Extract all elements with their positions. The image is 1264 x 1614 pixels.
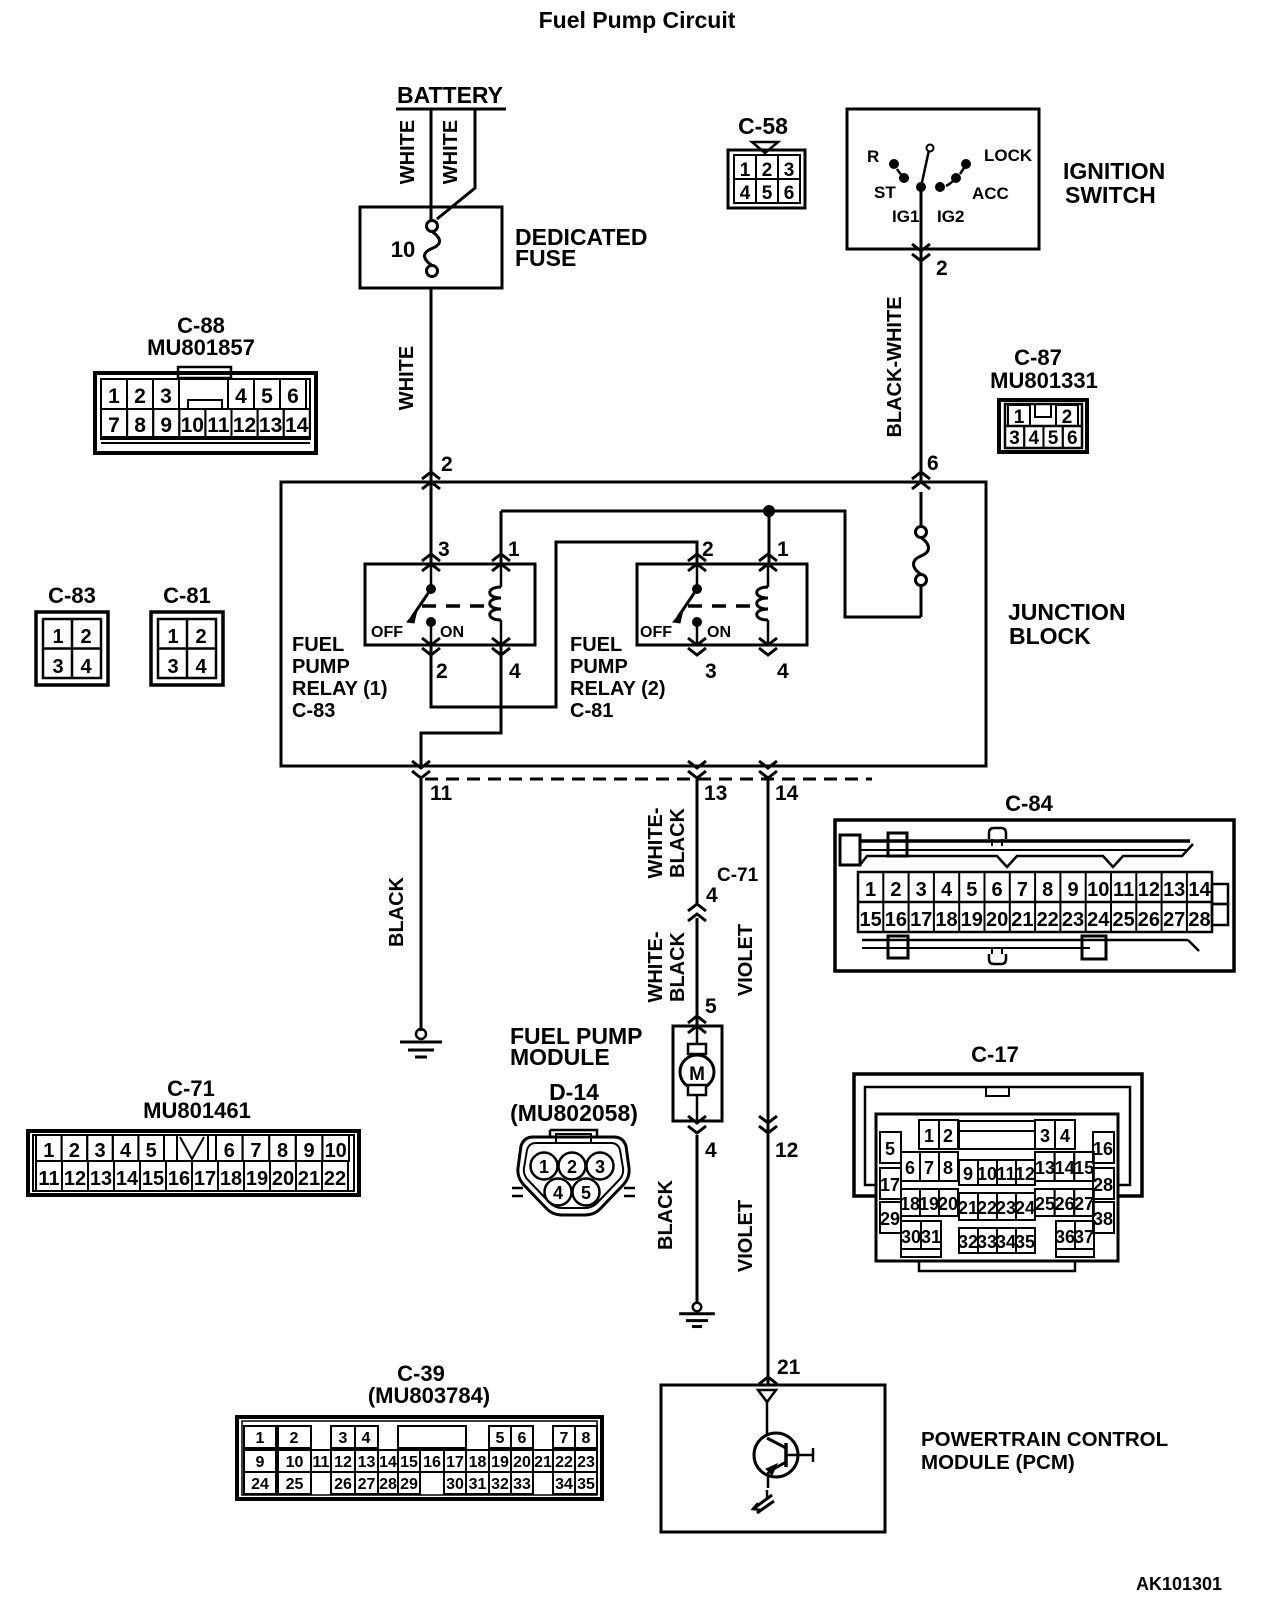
svg-text:LOCK: LOCK: [984, 146, 1033, 165]
svg-text:C-81: C-81: [570, 700, 613, 722]
svg-text:WHITE-: WHITE-: [645, 931, 667, 1002]
chevrons into fuel pump module: [688, 1016, 706, 1033]
svg-text:6: 6: [1067, 428, 1078, 449]
junction node at relay 2 coil branch: [764, 506, 775, 517]
svg-text:3: 3: [784, 160, 795, 181]
svg-text:1: 1: [539, 1157, 549, 1177]
svg-text:PUMP: PUMP: [570, 656, 628, 678]
svg-text:OFF: OFF: [640, 624, 672, 641]
svg-text:WHITE-: WHITE-: [645, 807, 667, 878]
svg-text:IG1: IG1: [892, 207, 919, 226]
svg-text:35: 35: [1015, 1232, 1035, 1252]
svg-text:MU801461: MU801461: [143, 1098, 251, 1123]
svg-text:13: 13: [1035, 1158, 1055, 1178]
svg-text:4: 4: [777, 660, 789, 683]
svg-text:14: 14: [1188, 879, 1211, 901]
connector C-71 inline crossing, pin 4: [688, 904, 706, 921]
svg-text:15: 15: [1074, 1158, 1094, 1178]
svg-text:22: 22: [324, 1168, 346, 1190]
svg-text:19: 19: [491, 1454, 509, 1471]
chevrons on violet wire: [759, 1116, 777, 1133]
svg-text:22: 22: [1037, 909, 1059, 931]
relay 2 switch: [673, 564, 702, 645]
svg-text:4: 4: [705, 1139, 717, 1162]
connector C-84: [835, 791, 1234, 971]
svg-text:11: 11: [207, 414, 230, 437]
svg-text:6: 6: [287, 385, 299, 408]
svg-text:14: 14: [379, 1454, 397, 1471]
svg-text:9: 9: [160, 414, 172, 437]
svg-text:5: 5: [581, 1183, 591, 1203]
svg-text:C-58: C-58: [738, 113, 788, 139]
svg-text:20: 20: [938, 1194, 958, 1214]
svg-text:5: 5: [966, 879, 977, 901]
svg-text:33: 33: [977, 1232, 997, 1252]
svg-text:10: 10: [286, 1454, 304, 1471]
chevrons junction block pin 11: [412, 761, 430, 778]
wire: battery to fuse (left lead): [430, 109, 433, 221]
svg-text:6: 6: [905, 1158, 915, 1178]
svg-text:VIOLET: VIOLET: [735, 924, 757, 996]
svg-text:4: 4: [509, 660, 521, 683]
label FUEL PUMP RELAY (1) C-83: [292, 634, 388, 722]
svg-text:5: 5: [146, 1140, 157, 1162]
svg-text:2: 2: [702, 538, 714, 561]
svg-text:4: 4: [362, 1430, 371, 1447]
svg-text:ON: ON: [440, 624, 464, 641]
svg-text:27: 27: [1074, 1194, 1094, 1214]
chevrons relay 1 pin 1: [492, 554, 510, 571]
svg-text:21: 21: [534, 1454, 552, 1471]
svg-text:BLACK-WHITE: BLACK-WHITE: [884, 296, 906, 437]
svg-text:R: R: [867, 147, 879, 166]
svg-text:28: 28: [1093, 1175, 1113, 1195]
svg-text:22: 22: [555, 1454, 573, 1471]
svg-text:3: 3: [595, 1157, 605, 1177]
svg-text:7: 7: [250, 1140, 261, 1162]
svg-text:38: 38: [1093, 1209, 1113, 1229]
svg-text:11: 11: [313, 1454, 330, 1471]
svg-text:C-17: C-17: [971, 1042, 1019, 1067]
relay 1 coil: [490, 564, 501, 645]
svg-text:16: 16: [168, 1168, 190, 1190]
svg-text:6: 6: [224, 1140, 235, 1162]
svg-text:24: 24: [1015, 1198, 1035, 1218]
svg-text:BLOCK: BLOCK: [1009, 623, 1091, 649]
svg-text:IG2: IG2: [937, 207, 964, 226]
svg-text:11: 11: [430, 782, 453, 805]
svg-text:2: 2: [1062, 407, 1073, 428]
svg-text:29: 29: [400, 1476, 418, 1493]
powertrain control module box: [661, 1385, 885, 1532]
svg-text:10: 10: [977, 1164, 997, 1184]
svg-text:ST: ST: [874, 183, 896, 202]
svg-text:23: 23: [577, 1454, 595, 1471]
chevrons out of fuel pump module: [688, 1116, 706, 1133]
connector C-39 (MU803784): [237, 1361, 602, 1499]
svg-text:34: 34: [996, 1232, 1016, 1252]
svg-text:18: 18: [469, 1454, 487, 1471]
PCM input triangle (pin 21): [758, 1390, 776, 1402]
relay 2 coil: [757, 564, 768, 645]
svg-text:17: 17: [446, 1454, 464, 1471]
svg-text:C-83: C-83: [48, 583, 96, 608]
svg-text:3: 3: [705, 660, 717, 683]
svg-text:20: 20: [272, 1168, 294, 1190]
svg-text:27: 27: [358, 1476, 376, 1493]
svg-text:28: 28: [1188, 909, 1210, 931]
chevrons relay 2 pin 3: [688, 638, 706, 655]
junction block bottom dashed edge: [425, 778, 872, 781]
svg-text:25: 25: [1035, 1194, 1055, 1214]
svg-text:OFF: OFF: [371, 624, 403, 641]
svg-text:28: 28: [379, 1476, 397, 1493]
svg-text:19: 19: [246, 1168, 268, 1190]
svg-text:4: 4: [1060, 1126, 1070, 1146]
ignition switch rotary contacts: [890, 145, 971, 192]
connector C-71 MU801461: [28, 1076, 359, 1195]
label WHITE-BLACK (lower): [645, 931, 689, 1002]
svg-text:3: 3: [1040, 1126, 1050, 1146]
svg-text:30: 30: [446, 1476, 464, 1493]
svg-text:5: 5: [1048, 428, 1059, 449]
label JUNCTION BLOCK: [1008, 599, 1126, 649]
svg-text:11: 11: [996, 1164, 1015, 1184]
svg-text:36: 36: [1055, 1227, 1075, 1247]
svg-text:AK101301: AK101301: [1136, 1574, 1222, 1594]
svg-text:22: 22: [977, 1198, 997, 1218]
fuel pump relay (1) box C-83: [365, 564, 535, 645]
chevrons relay 2 pin 2: [688, 554, 706, 571]
svg-text:3: 3: [94, 1140, 105, 1162]
chevrons relay 2 pin 4: [759, 638, 777, 655]
svg-text:BLACK: BLACK: [667, 807, 689, 878]
svg-text:ON: ON: [707, 624, 731, 641]
chevrons relay 2 pin 1: [759, 554, 777, 571]
svg-text:34: 34: [555, 1476, 573, 1493]
svg-text:C-71: C-71: [717, 865, 759, 886]
svg-text:JUNCTION: JUNCTION: [1008, 599, 1126, 625]
ignition switch box: [847, 109, 1039, 249]
wire: fuel pump module pin 4 to ground (BLACK): [696, 1135, 699, 1304]
svg-text:13: 13: [358, 1454, 376, 1471]
svg-text:(MU802058): (MU802058): [510, 1100, 638, 1126]
svg-text:18: 18: [220, 1168, 242, 1190]
chevrons junction block pin 13: [688, 761, 706, 778]
svg-text:24: 24: [1087, 909, 1110, 931]
svg-text:BATTERY: BATTERY: [397, 82, 503, 108]
svg-text:9: 9: [304, 1140, 315, 1162]
svg-text:17: 17: [194, 1168, 216, 1190]
svg-text:10: 10: [325, 1140, 347, 1162]
svg-text:14: 14: [116, 1168, 139, 1190]
svg-text:2: 2: [290, 1430, 299, 1447]
connector D-14 face view: [512, 1130, 635, 1215]
svg-text:35: 35: [577, 1476, 595, 1493]
svg-text:17: 17: [880, 1175, 900, 1195]
svg-text:WHITE: WHITE: [397, 120, 419, 184]
relay 1 switch: [407, 564, 436, 645]
svg-text:5: 5: [762, 183, 773, 204]
svg-text:BLACK: BLACK: [667, 931, 689, 1002]
fuel pump module box D-14: [673, 1026, 722, 1121]
chevrons relay 1 pin 2: [422, 638, 440, 655]
svg-text:31: 31: [921, 1227, 941, 1247]
svg-text:21: 21: [1011, 909, 1033, 931]
svg-text:FUEL: FUEL: [292, 634, 344, 656]
svg-text:13: 13: [704, 782, 727, 805]
svg-text:M: M: [689, 1064, 705, 1085]
wire: relay 1 pin 2 to relay 2 pin 2: [431, 542, 697, 707]
svg-text:26: 26: [334, 1476, 352, 1493]
wire: battery to fuse (right lead): [437, 109, 475, 219]
chevrons relay 1 pin 3: [422, 554, 440, 571]
connector C-87 MU801331: [990, 345, 1098, 452]
svg-text:23: 23: [996, 1198, 1016, 1218]
svg-text:3: 3: [916, 879, 927, 901]
chevrons into junction block top (pin 2): [422, 472, 440, 489]
svg-text:20: 20: [513, 1454, 531, 1471]
connector C-88 MU801857: [95, 313, 316, 453]
svg-text:6: 6: [518, 1430, 527, 1447]
svg-text:3: 3: [167, 656, 178, 678]
svg-text:1: 1: [1014, 407, 1025, 428]
svg-text:24: 24: [251, 1476, 269, 1493]
ground G2: [679, 1303, 715, 1327]
svg-text:POWERTRAIN CONTROL: POWERTRAIN CONTROL: [921, 1428, 1168, 1451]
junction block outline: [281, 482, 986, 766]
svg-text:WHITE: WHITE: [440, 120, 462, 184]
svg-text:9: 9: [256, 1454, 265, 1471]
svg-text:FUEL: FUEL: [570, 634, 622, 656]
svg-text:1: 1: [740, 160, 751, 181]
svg-text:17: 17: [910, 909, 932, 931]
svg-text:8: 8: [134, 414, 146, 437]
svg-text:6: 6: [992, 879, 1003, 901]
fusible link inside junction block: [914, 492, 929, 617]
wire: relay 1 pin 4 to junction block pin 11: [421, 645, 501, 766]
svg-text:12: 12: [1138, 879, 1160, 901]
svg-text:2: 2: [436, 660, 448, 683]
svg-text:2: 2: [762, 160, 773, 181]
fuel pump motor M: [680, 1026, 714, 1121]
connector C-58: [728, 113, 805, 208]
svg-text:4: 4: [706, 884, 718, 907]
svg-text:16: 16: [1093, 1139, 1113, 1159]
svg-text:14: 14: [775, 782, 799, 805]
svg-text:1: 1: [865, 879, 876, 901]
svg-text:3: 3: [160, 385, 172, 408]
connector C-17: [854, 1042, 1142, 1271]
svg-text:15: 15: [400, 1454, 418, 1471]
wire: coil bus to relay 1 pin 1: [500, 511, 503, 564]
svg-text:33: 33: [513, 1476, 531, 1493]
svg-text:15: 15: [142, 1168, 164, 1190]
svg-text:ACC: ACC: [972, 184, 1009, 203]
connector C-81: [151, 583, 223, 685]
svg-text:7: 7: [108, 414, 120, 437]
svg-text:4: 4: [941, 879, 953, 901]
connector C-83: [36, 583, 108, 685]
svg-text:7: 7: [1017, 879, 1028, 901]
svg-text:RELAY (1): RELAY (1): [292, 678, 388, 700]
svg-text:13: 13: [1163, 879, 1185, 901]
svg-text:14: 14: [1055, 1158, 1075, 1178]
svg-text:10: 10: [181, 414, 204, 437]
svg-text:26: 26: [1055, 1194, 1075, 1214]
svg-text:2: 2: [195, 626, 206, 648]
svg-text:2: 2: [441, 453, 453, 476]
wire: junction block pin 13 to connector C-71 (WHITE-BLACK): [696, 779, 699, 905]
label WHITE-BLACK (upper): [645, 807, 689, 878]
relay 2 dashed link: [688, 604, 760, 608]
svg-text:MODULE (PCM): MODULE (PCM): [921, 1451, 1075, 1474]
svg-text:WHITE: WHITE: [396, 346, 418, 410]
wire: junction block pin 14 to PCM pin 21 (VIOLET): [767, 779, 770, 1385]
svg-text:BLACK: BLACK: [655, 1179, 677, 1250]
svg-text:1: 1: [256, 1430, 265, 1447]
svg-text:VIOLET: VIOLET: [735, 1200, 757, 1272]
label IGNITION SWITCH: [1063, 158, 1165, 208]
svg-text:(MU803784): (MU803784): [368, 1383, 490, 1408]
label FUEL PUMP RELAY (2) C-81: [570, 634, 666, 722]
svg-text:C-81: C-81: [163, 583, 211, 608]
svg-text:2: 2: [890, 879, 901, 901]
svg-text:19: 19: [919, 1194, 939, 1214]
svg-text:FUSE: FUSE: [515, 245, 576, 271]
svg-text:11: 11: [1113, 879, 1134, 901]
svg-text:2: 2: [943, 1126, 953, 1146]
svg-text:5: 5: [705, 995, 717, 1018]
svg-text:3: 3: [339, 1430, 348, 1447]
svg-text:C-84: C-84: [1005, 791, 1053, 816]
wire: bus to relay 2 coil pin 1: [768, 511, 771, 564]
svg-text:8: 8: [1042, 879, 1053, 901]
svg-text:MU801331: MU801331: [990, 368, 1098, 393]
svg-text:18: 18: [900, 1194, 920, 1214]
svg-text:37: 37: [1074, 1227, 1094, 1247]
svg-text:1: 1: [108, 385, 120, 408]
svg-text:20: 20: [986, 909, 1008, 931]
svg-text:5: 5: [885, 1139, 895, 1159]
svg-text:4: 4: [120, 1140, 132, 1162]
svg-text:10: 10: [1087, 879, 1109, 901]
svg-text:Fuel Pump Circuit: Fuel Pump Circuit: [539, 7, 736, 33]
svg-text:21: 21: [777, 1356, 801, 1379]
svg-text:11: 11: [38, 1168, 59, 1190]
label DEDICATED FUSE: [515, 224, 647, 271]
svg-text:9: 9: [1067, 879, 1078, 901]
battery B+ terminal: [396, 82, 506, 109]
svg-text:4: 4: [235, 385, 247, 408]
svg-text:3: 3: [438, 538, 450, 561]
svg-text:12: 12: [233, 414, 256, 437]
wire: fuse to junction block pin 2: [430, 288, 433, 482]
fuse element (dedicated fuse): [425, 221, 440, 277]
wire: junction block pin 11 to ground (BLACK): [420, 779, 423, 1031]
svg-text:16: 16: [885, 909, 907, 931]
ground G1: [400, 1029, 442, 1057]
svg-text:1: 1: [43, 1140, 54, 1162]
svg-text:29: 29: [880, 1209, 900, 1229]
svg-text:8: 8: [277, 1140, 288, 1162]
svg-text:5: 5: [496, 1430, 505, 1447]
wire: ignition switch pin 2 to junction block pin 6: [920, 187, 923, 482]
svg-text:7: 7: [924, 1158, 934, 1178]
svg-text:31: 31: [469, 1476, 487, 1493]
svg-text:12: 12: [1015, 1164, 1035, 1184]
PCM internal ground continuation arrow: [753, 1490, 774, 1513]
svg-text:10: 10: [391, 237, 415, 262]
svg-text:16: 16: [423, 1454, 441, 1471]
svg-text:1: 1: [52, 626, 63, 648]
chevron into PCM: [759, 1377, 777, 1384]
svg-text:IGNITION: IGNITION: [1063, 158, 1165, 184]
svg-text:C-83: C-83: [292, 700, 335, 722]
chevrons relay 1 pin 4: [492, 638, 510, 655]
svg-text:9: 9: [963, 1164, 973, 1184]
svg-text:12: 12: [334, 1454, 352, 1471]
svg-text:BLACK: BLACK: [386, 876, 408, 947]
svg-text:8: 8: [582, 1430, 591, 1447]
svg-text:4: 4: [740, 183, 751, 204]
svg-text:RELAY (2): RELAY (2): [570, 678, 666, 700]
svg-text:4: 4: [1029, 428, 1040, 449]
svg-text:4: 4: [553, 1183, 563, 1203]
chevrons into junction block top (pin 6): [912, 472, 930, 489]
svg-text:SWITCH: SWITCH: [1065, 182, 1156, 208]
svg-text:21: 21: [958, 1198, 978, 1218]
svg-text:12: 12: [64, 1168, 86, 1190]
svg-text:15: 15: [859, 909, 881, 931]
svg-text:26: 26: [1138, 909, 1160, 931]
svg-text:30: 30: [901, 1227, 921, 1247]
svg-text:32: 32: [958, 1232, 978, 1252]
svg-text:32: 32: [491, 1476, 509, 1493]
svg-text:23: 23: [1062, 909, 1084, 931]
svg-text:6: 6: [784, 183, 795, 204]
svg-text:1: 1: [777, 538, 789, 561]
svg-text:27: 27: [1163, 909, 1185, 931]
svg-text:18: 18: [935, 909, 957, 931]
svg-text:21: 21: [298, 1168, 320, 1190]
svg-text:3: 3: [52, 656, 63, 678]
svg-text:7: 7: [560, 1430, 569, 1447]
svg-text:8: 8: [943, 1158, 953, 1178]
svg-text:1: 1: [924, 1126, 934, 1146]
relay 1 dashed link: [422, 604, 494, 608]
svg-text:6: 6: [927, 452, 939, 475]
svg-text:2: 2: [567, 1157, 577, 1177]
wire: junction block pin 2 to relay 1 pin 3: [430, 482, 433, 564]
svg-text:4: 4: [195, 656, 207, 678]
svg-text:MU801857: MU801857: [147, 335, 255, 360]
svg-text:14: 14: [285, 414, 309, 437]
svg-text:1: 1: [167, 626, 178, 648]
label FUEL PUMP MODULE D-14 (MU802058): [510, 1023, 642, 1126]
dedicated fuse box: [360, 207, 502, 288]
label POWERTRAIN CONTROL MODULE (PCM): [921, 1428, 1168, 1474]
svg-text:25: 25: [286, 1476, 304, 1493]
svg-text:12: 12: [775, 1139, 798, 1162]
svg-text:PUMP: PUMP: [292, 656, 350, 678]
wire: C-71 to fuel pump module pin 5 (WHITE-BLACK): [696, 918, 699, 1026]
svg-text:2: 2: [134, 385, 146, 408]
svg-text:13: 13: [90, 1168, 112, 1190]
svg-text:13: 13: [259, 414, 282, 437]
svg-text:2: 2: [80, 626, 91, 648]
svg-text:5: 5: [261, 385, 273, 408]
